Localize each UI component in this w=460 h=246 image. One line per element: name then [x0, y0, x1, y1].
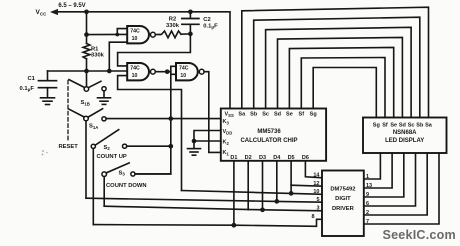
wire C1 drop [47, 71, 49, 80]
svg-text:10: 10 [313, 189, 319, 195]
svg-text:74C: 74C [130, 29, 140, 35]
wire U3 output to chip K1 [204, 72, 221, 153]
svg-text:12: 12 [313, 181, 319, 187]
wire driver out 7 to display [364, 153, 439, 224]
svg-text:K2: K2 [223, 140, 230, 146]
svg-text:74C: 74C [130, 66, 140, 72]
svg-text:RESET: RESET [59, 144, 79, 150]
wire segment arc Sf [301, 58, 385, 118]
svg-text:Se: Se [286, 112, 293, 118]
svg-text:COUNT UP: COUNT UP [97, 154, 127, 160]
wire U2 output to U3 inputs [155, 71, 170, 73]
switch S1A [84, 116, 89, 121]
wire segment arc Sc [266, 27, 412, 117]
svg-text:2: 2 [366, 210, 369, 216]
wire pin 12 stub from D5 [291, 185, 322, 186]
node gate U1 input tie [115, 33, 119, 37]
wire digit D2 [247, 161, 249, 210]
node D3/pin5 [274, 199, 279, 204]
wire Vcc drop to R1 node [86, 12, 88, 44]
svg-text:8: 8 [311, 214, 314, 220]
wire digit D1 [233, 161, 235, 225]
op gate U2 74C10 NAND [127, 63, 149, 80]
svg-text:CALCULATOR CHIP: CALCULATOR CHIP [240, 138, 297, 144]
wire reset linkage dashed [67, 81, 69, 142]
svg-text:SeekIC.com: SeekIC.com [383, 228, 456, 242]
wire Vcc top rail with corner down to chip VSS [57, 12, 230, 109]
display NSN68A box [363, 118, 447, 154]
wire driver out 2 to display [364, 153, 427, 215]
node U2 out [165, 69, 170, 74]
svg-text:S2: S2 [104, 145, 111, 151]
svg-text:14: 14 [313, 172, 320, 178]
svg-text:C2: C2 [203, 17, 210, 23]
svg-text:Sc: Sc [262, 112, 269, 118]
wire K2 pin [194, 140, 221, 142]
svg-text:0.1μF: 0.1μF [20, 86, 35, 92]
switch S3 count down [102, 172, 107, 177]
svg-text:0.1μF: 0.1μF [203, 24, 218, 30]
svg-text:Sg: Sg [310, 112, 317, 118]
svg-text:Sb: Sb [416, 122, 424, 128]
svg-text:6: 6 [366, 201, 369, 207]
wire pin 3 line from S3 [104, 206, 322, 211]
svg-text:VDD: VDD [223, 129, 233, 135]
ground under S1B [98, 97, 111, 99]
svg-text:S1A: S1A [89, 124, 98, 130]
ground under C1 [41, 97, 55, 99]
ground at VDD/K2 [188, 148, 201, 150]
wire switch-common bus vertical [135, 74, 171, 174]
wire driver out 1 to display [364, 153, 381, 179]
switch S2 count up [91, 144, 95, 148]
svg-text:R2: R2 [169, 16, 176, 22]
node VDD/K2 [192, 139, 197, 144]
wire S2 common down to pin8 line [92, 149, 94, 225]
node D4/pin10 [289, 191, 294, 196]
svg-text:C1: C1 [28, 76, 36, 82]
svg-text:D6: D6 [302, 155, 309, 161]
wire driver out 9 to display [364, 153, 404, 197]
wire pin 8 line from S2 [93, 219, 322, 226]
svg-text:DM75492: DM75492 [330, 187, 355, 193]
node R2/C2 [188, 32, 193, 37]
svg-text:D5: D5 [288, 155, 295, 161]
resistor R2 330k [160, 31, 181, 38]
chip MM5736 box [221, 109, 326, 161]
wire U3 input stub [171, 66, 176, 74]
svg-text:Sc: Sc [408, 122, 415, 128]
wire segment arc Sg [313, 68, 376, 118]
scan smudge marks [42, 150, 44, 152]
svg-text:NSN68A: NSN68A [393, 130, 417, 136]
wire segment arc Sd [278, 37, 403, 117]
switch S1B [86, 71, 88, 86]
resistor R1 330k [83, 44, 90, 59]
svg-text:9: 9 [366, 192, 369, 198]
svg-text:Sf: Sf [299, 112, 305, 118]
svg-text:COUNT DOWN: COUNT DOWN [106, 183, 147, 189]
svg-text:Sf: Sf [382, 122, 388, 128]
svg-text:3: 3 [316, 205, 319, 211]
node R1/S1B [84, 69, 89, 74]
wire S2 to bus [127, 145, 171, 147]
wire R1 node to gate U1 inputs [87, 33, 128, 35]
svg-text:Sd: Sd [399, 122, 406, 128]
node R1 top / gate input [84, 32, 89, 37]
svg-text:D1: D1 [230, 155, 237, 161]
wire S1A right to chip K3 [106, 118, 221, 120]
svg-text:Sa: Sa [425, 122, 433, 128]
wire S1A common down to driver pin5 line [85, 121, 87, 198]
wire U1 third input riser [109, 42, 127, 71]
wire pin 10 line from feedback [182, 191, 323, 195]
svg-text:5: 5 [316, 197, 319, 203]
svg-text:LED DISPLAY: LED DISPLAY [385, 138, 424, 144]
svg-text:S1B: S1B [81, 100, 90, 106]
capacitor C1 0.1uF [39, 80, 57, 82]
svg-text:330k: 330k [166, 23, 180, 29]
wire driver out 13 to display [364, 153, 392, 188]
node bus/K3 line [168, 116, 173, 121]
op gate U1 74C10 NAND [127, 26, 149, 43]
wire R1 bottom [86, 59, 88, 71]
wire S3 common down to pin3 line [103, 177, 105, 207]
wire segment arc Sa [242, 7, 429, 117]
Vcc arrow [50, 9, 58, 15]
svg-text:10: 10 [180, 73, 186, 79]
driver DM75492 box [322, 171, 364, 237]
svg-text:DRIVER: DRIVER [332, 206, 355, 212]
svg-text:6.5 – 9.5V: 6.5 – 9.5V [58, 3, 85, 9]
svg-text:VSS: VSS [225, 112, 234, 118]
wire chip VDD pin to ground [194, 131, 221, 149]
svg-text:74C: 74C [179, 66, 189, 72]
node D1/pin8 [232, 223, 237, 228]
svg-text:Sb: Sb [250, 112, 258, 118]
svg-text:D3: D3 [259, 155, 266, 161]
wire digit D3 [262, 161, 264, 210]
node junction rail/R1 [84, 9, 89, 14]
svg-text:DIGIT: DIGIT [335, 196, 351, 202]
svg-text:K3: K3 [223, 119, 230, 125]
svg-text:10: 10 [132, 73, 138, 79]
capacitor C2 0.1uF [189, 12, 191, 18]
op gate U3 74C10 NAND [176, 63, 198, 80]
node junction rail/C2 [188, 9, 193, 14]
node bus/S2 line [168, 144, 173, 149]
wire segment arc Se [289, 47, 393, 117]
svg-text:MM5736: MM5736 [257, 129, 281, 135]
wire digit D6 to pin 14 [305, 161, 322, 178]
node gate U1 lower input branch [107, 69, 112, 74]
svg-text:S3: S3 [119, 170, 126, 176]
svg-text:K1: K1 [223, 150, 230, 156]
wire S3 to bus [135, 173, 171, 175]
svg-text:D2: D2 [245, 155, 252, 161]
wire C2 node to gate U2 top input [118, 34, 191, 66]
wire R2 to C2 node [181, 33, 190, 35]
svg-text:Sd: Sd [274, 112, 281, 118]
node D2/pin3 [260, 207, 265, 212]
wire stub to U1 top input [117, 29, 127, 35]
svg-text:330k: 330k [91, 53, 105, 59]
svg-text:13: 13 [366, 183, 372, 189]
svg-text:1: 1 [366, 174, 369, 180]
svg-text:D4: D4 [273, 155, 281, 161]
wire node row y=71 C1 to gate U2 [48, 70, 128, 72]
svg-text:R1: R1 [91, 47, 99, 53]
svg-text:Sa: Sa [238, 112, 246, 118]
wire U2 bottom input elbow to feedback [118, 76, 182, 191]
wire S1B to ground [103, 91, 105, 98]
wire U1 output to R2 [155, 34, 160, 36]
svg-text:7: 7 [366, 219, 369, 225]
svg-text:10: 10 [132, 36, 138, 42]
wire segment arc Sb [254, 17, 420, 117]
wire driver out 6 to display [364, 153, 416, 206]
wire pin 5 line from S1A [86, 198, 322, 202]
svg-text:Sg: Sg [373, 122, 380, 128]
wire digit D4 [276, 161, 278, 202]
wire digit D5 to pin 12 [290, 161, 292, 194]
svg-text:Se: Se [390, 122, 397, 128]
